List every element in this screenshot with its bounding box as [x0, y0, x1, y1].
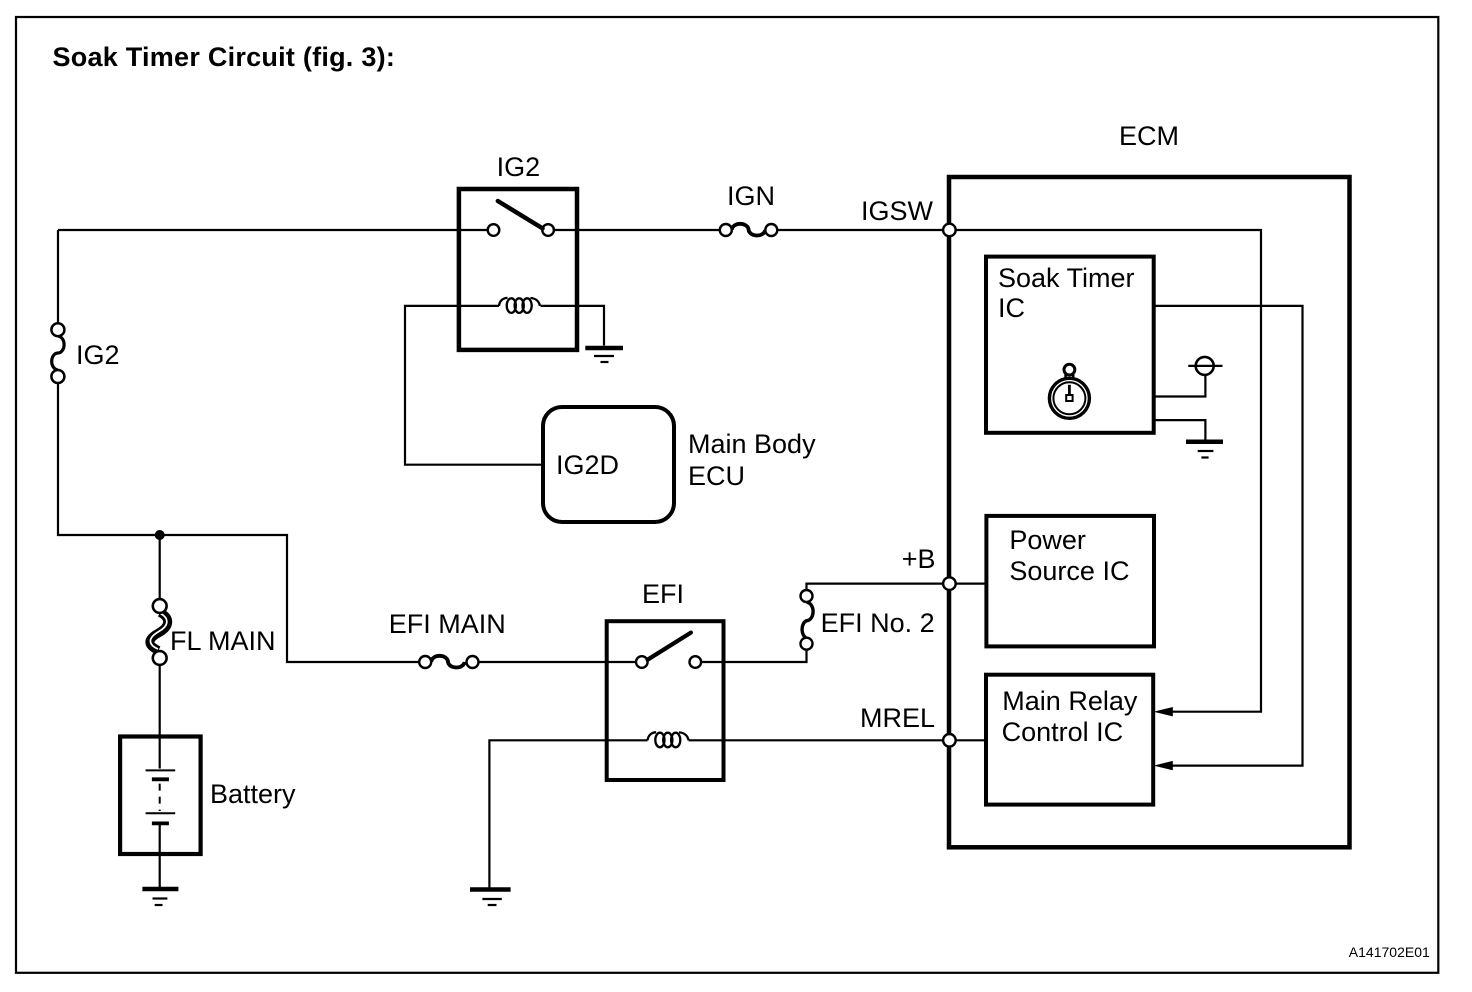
svg-text:FL MAIN: FL MAIN: [170, 626, 276, 656]
junction node: [155, 530, 165, 540]
svg-text:A141702E01: A141702E01: [1349, 944, 1430, 960]
fusible link FL MAIN: [150, 599, 276, 665]
terminal circle: [1188, 365, 1222, 367]
coil: [648, 732, 689, 747]
svg-text:MREL: MREL: [860, 703, 935, 733]
switch blade: [648, 633, 691, 660]
ground (EFI relay): [470, 890, 511, 906]
wire: battery to ground: [159, 825, 161, 887]
svg-text:IGSW: IGSW: [861, 196, 934, 226]
relay IG2: [459, 152, 577, 350]
battery: [120, 737, 296, 855]
svg-text:+B: +B: [902, 544, 936, 574]
wire: EFI MAIN fuse to EFI relay: [479, 661, 642, 663]
svg-text:Control IC: Control IC: [1002, 717, 1124, 747]
svg-text:IC: IC: [998, 293, 1025, 323]
wire: EFI relay contact to EFI No.2 fuse: [724, 650, 807, 662]
svg-text:Source IC: Source IC: [1009, 556, 1129, 586]
svg-text:Main Relay: Main Relay: [1002, 686, 1138, 716]
switch blade: [498, 201, 543, 228]
ECM box: [949, 177, 1350, 847]
svg-text:Main Body: Main Body: [688, 429, 816, 459]
contact circles: [488, 224, 500, 236]
svg-text:IG2D: IG2D: [556, 450, 619, 480]
svg-text:IGN: IGN: [727, 181, 775, 211]
svg-text:Soak Timer Circuit (fig. 3):: Soak Timer Circuit (fig. 3):: [53, 42, 396, 72]
coil: [499, 298, 540, 313]
fuse EFI No. 2: [801, 590, 935, 650]
svg-text:Power: Power: [1009, 525, 1086, 555]
fuse IGN: [720, 181, 778, 236]
arrow into Main Relay Control IC (lower): [1154, 761, 1173, 770]
wire: EFI No.2 fuse to +B node and Power Source IC: [807, 584, 987, 589]
Main Relay Control IC box: [986, 675, 1153, 805]
fuse EFI MAIN: [389, 609, 506, 668]
svg-text:ECM: ECM: [1119, 121, 1179, 151]
fuse IG2 (left vertical): [51, 323, 119, 383]
wire: IG2 relay coil to ground: [577, 306, 604, 346]
node IGSW: [943, 224, 956, 237]
svg-text:EFI No. 2: EFI No. 2: [821, 608, 935, 638]
wire: IG2 fuse down to junction, over and down to EFI MAIN fuse: [58, 384, 419, 663]
wire: IGSW into ECM down to Main Relay Control IC arrow: [949, 230, 1261, 712]
wire: Soak Timer IC to terminal circle: [1154, 375, 1206, 397]
contact circles: [636, 656, 648, 668]
wire: left vertical drop to IG2 fuse: [57, 230, 59, 323]
Soak Timer IC box: [986, 257, 1154, 433]
node +B: [943, 577, 956, 590]
wire: main IGSW horizontal run: [58, 229, 949, 231]
svg-text:EFI MAIN: EFI MAIN: [389, 609, 506, 639]
node MREL: [943, 734, 956, 747]
ground (IG2 relay): [585, 348, 623, 362]
svg-text:IG2: IG2: [76, 340, 120, 370]
wire: EFI relay coil to MREL node and Main Relay Control IC: [724, 739, 987, 741]
svg-text:IG2: IG2: [497, 152, 541, 182]
Main Body ECU box: [543, 407, 674, 522]
wire: Soak Timer IC output to lower arrow: [1154, 306, 1303, 766]
wire: contact to box edge: [695, 661, 723, 663]
ground (soak timer): [1186, 442, 1223, 458]
ground (battery): [142, 889, 178, 905]
wire: FL MAIN to battery: [159, 665, 161, 769]
svg-text:Battery: Battery: [210, 779, 296, 809]
arrow into Main Relay Control IC (upper): [1154, 707, 1173, 716]
wire: EFI relay coil to ground: [489, 740, 606, 887]
wire: junction to FL MAIN: [159, 535, 161, 599]
svg-text:ECU: ECU: [688, 461, 745, 491]
wire: Soak Timer IC to ground: [1154, 420, 1206, 440]
relay EFI: [607, 579, 724, 780]
Power Source IC box: [986, 516, 1154, 647]
svg-text:EFI: EFI: [642, 579, 684, 609]
coil interior wires: [459, 305, 577, 307]
wire: IG2 relay coil to Main Body ECU: [405, 306, 543, 465]
stopwatch icon U1: [1049, 364, 1089, 418]
svg-text:Soak Timer: Soak Timer: [998, 263, 1135, 293]
